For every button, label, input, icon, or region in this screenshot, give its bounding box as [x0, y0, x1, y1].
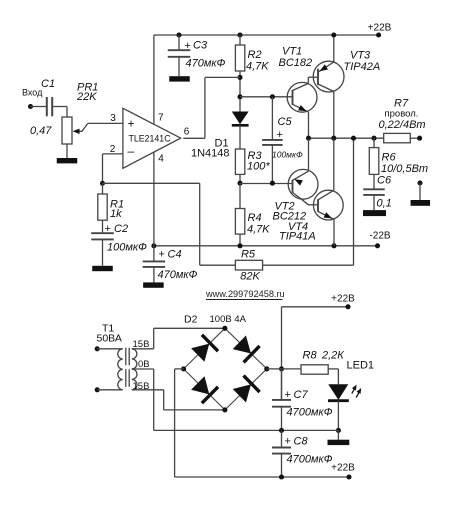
wire LED ground stub — [337, 430, 339, 439]
wire secondary bottom — [132, 390, 225, 410]
svg-text:www.299792458.ru: www.299792458.ru — [205, 289, 285, 299]
label R2 — [248, 49, 262, 61]
ground C6 — [363, 210, 386, 216]
node +22V terminal — [376, 32, 381, 37]
svg-text:VT1: VT1 — [282, 46, 302, 58]
transformer T1 core — [126, 348, 129, 391]
label VT3 type — [344, 61, 381, 73]
resistor R6 — [369, 148, 379, 175]
label R1 value — [110, 208, 122, 220]
svg-text:C2: C2 — [114, 223, 128, 235]
wire R8 left — [282, 368, 302, 370]
wire pin 3 — [88, 122, 123, 124]
label C5 value — [272, 150, 303, 160]
resistor R2 — [235, 45, 244, 71]
label R7 — [394, 98, 409, 110]
svg-text:1N4148: 1N4148 — [191, 148, 230, 160]
node output ground terminal — [417, 180, 422, 185]
label C1 value — [30, 125, 52, 137]
label R6 — [382, 152, 397, 164]
capacitor C1 — [47, 97, 52, 116]
wire op-amp pin7 to +22V — [153, 35, 155, 125]
wire +22V vertical — [281, 307, 283, 400]
wire bridge right — [267, 368, 282, 370]
label R3 — [248, 150, 263, 162]
node R2 top — [237, 32, 242, 37]
wire R2 bottom — [239, 71, 241, 112]
label R4 — [248, 212, 262, 224]
label C4 plus — [159, 249, 165, 261]
node op-amp output junction — [237, 75, 242, 80]
svg-text:4700мкФ: 4700мкФ — [287, 454, 333, 466]
svg-text:BC182: BC182 — [279, 57, 313, 69]
svg-text:+: + — [277, 129, 283, 141]
wire R6 bottom — [373, 174, 375, 189]
wire D1 cathode — [239, 125, 241, 149]
wire bridge edge top-right — [225, 328, 267, 369]
ground C4 — [143, 282, 164, 287]
wire rectifier +22V rail — [282, 306, 349, 308]
wire bottom rail — [175, 476, 349, 478]
label C2 plus — [105, 223, 111, 235]
svg-text:D2: D2 — [184, 314, 198, 326]
capacitor C7 — [272, 369, 291, 431]
node T1 primary top — [95, 346, 100, 351]
wire midpoint rail — [154, 429, 339, 431]
resistor R3 — [235, 149, 244, 174]
node -22V terminal — [375, 243, 380, 248]
svg-text:6: 6 — [184, 127, 190, 138]
svg-text:+: + — [128, 117, 135, 131]
label input — [22, 88, 43, 98]
svg-text:2,2К: 2,2К — [321, 350, 344, 362]
svg-text:+22В: +22В — [368, 23, 392, 34]
label VT1 — [282, 46, 302, 58]
label C4 — [168, 249, 182, 261]
svg-text:C6: C6 — [377, 175, 392, 187]
svg-text:LED1: LED1 — [347, 360, 375, 372]
label C6 — [377, 175, 392, 187]
svg-text:4,7K: 4,7K — [247, 224, 270, 236]
wire R5 to output — [263, 138, 354, 265]
svg-text:100мкФ: 100мкФ — [107, 242, 147, 254]
wire R3 to R4 — [239, 183, 241, 208]
svg-text:7: 7 — [158, 113, 164, 124]
label D1 — [215, 138, 229, 150]
svg-text:C1: C1 — [41, 78, 55, 90]
label PR1 — [77, 82, 98, 94]
resistor R7 — [384, 133, 411, 142]
wire output line — [309, 137, 420, 139]
led LED1 arrows — [352, 385, 361, 398]
label C2 value — [107, 242, 147, 254]
label 15V top — [133, 339, 150, 350]
label R8 — [303, 350, 318, 362]
svg-text:провол.: провол. — [385, 109, 419, 120]
svg-text:3: 3 — [110, 113, 116, 124]
node C3 top — [176, 32, 181, 37]
svg-text:C7: C7 — [294, 389, 309, 401]
label C5 plus — [277, 129, 283, 141]
label C7 — [294, 389, 309, 401]
label R5 value — [240, 271, 260, 283]
label R3 value — [247, 161, 270, 173]
node -22V VT4 — [331, 243, 336, 248]
wire R4 bottom — [239, 234, 241, 246]
label VT4 — [288, 221, 308, 233]
label website — [205, 289, 285, 300]
node input terminal — [28, 104, 33, 109]
wire bridge edge bottom-left — [184, 369, 225, 410]
svg-text:+: + — [285, 389, 291, 401]
label R4 value — [247, 224, 270, 236]
capacitor C6 — [363, 189, 385, 210]
resistor R4 — [235, 209, 244, 235]
svg-text:+: + — [185, 40, 191, 52]
label C2 — [114, 223, 128, 235]
node bridge bottom — [222, 407, 227, 412]
diode D2 top-right — [233, 335, 260, 362]
wire C1 to PR1 — [52, 107, 67, 118]
label op-amp plus input — [128, 117, 135, 131]
svg-text:50ВА: 50ВА — [97, 333, 122, 345]
capacitor C3 — [168, 50, 191, 76]
label R7 value — [379, 119, 426, 131]
svg-text:Вход: Вход — [22, 88, 43, 98]
svg-text:R5: R5 — [241, 249, 256, 261]
svg-text:–: – — [128, 144, 135, 158]
node bottom rail C8 — [279, 474, 284, 479]
label VT4 type — [279, 231, 316, 243]
resistor R1 — [98, 194, 107, 220]
svg-text:R2: R2 — [248, 49, 262, 61]
node C5 bottom — [270, 181, 275, 186]
svg-text:0,47: 0,47 — [30, 125, 52, 137]
label pin 2 — [110, 144, 116, 155]
label C8 plus — [285, 436, 291, 448]
node rectifier +22V terminal — [345, 304, 350, 309]
label LED1 — [347, 360, 375, 372]
svg-text:VT3: VT3 — [350, 50, 371, 62]
label pin 6 — [184, 127, 190, 138]
node output terminal — [417, 136, 422, 141]
wire +22V rail — [154, 34, 379, 36]
wire bridge left to bottom rail — [175, 369, 184, 477]
ground PR1 — [57, 158, 78, 163]
node -22V C4 — [151, 243, 156, 248]
svg-text:C4: C4 — [168, 249, 182, 261]
diode D2 bottom-right — [233, 376, 260, 403]
svg-text:+22В: +22В — [331, 463, 355, 474]
label VT1 type — [279, 57, 313, 69]
resistor R8 — [301, 365, 328, 374]
capacitor C8 — [272, 430, 291, 477]
svg-text:4700мкФ: 4700мкФ — [287, 407, 333, 419]
node LED ground junction — [336, 428, 341, 433]
label C3 plus — [185, 40, 191, 52]
label VT2 — [275, 201, 295, 213]
label rectifier +22V — [331, 294, 355, 305]
wire T1 primary bottom — [97, 389, 123, 391]
label C3 value — [186, 58, 226, 70]
ground C3 — [169, 76, 190, 81]
transformer T1 primary winding — [118, 349, 123, 390]
wire secondary top — [132, 328, 225, 349]
node T1 primary bottom — [95, 387, 100, 392]
svg-text:82K: 82K — [240, 271, 260, 283]
node bottom rail terminal — [346, 474, 351, 479]
wire PR1 wiper — [73, 123, 88, 134]
transistor VT4 — [313, 138, 343, 246]
svg-text:-22В: -22В — [369, 231, 390, 242]
label C7 plus — [285, 389, 291, 401]
wire C3 top — [178, 35, 180, 50]
wire bridge edge bottom-right — [225, 369, 267, 410]
svg-text:470мкФ: 470мкФ — [186, 58, 226, 70]
wire R1 top — [102, 183, 104, 194]
label R7 wirewound — [385, 109, 419, 120]
label C3 — [193, 40, 208, 52]
svg-text:TIP42A: TIP42A — [344, 61, 381, 73]
svg-text:+: + — [285, 436, 291, 448]
potentiometer PR1 — [62, 117, 72, 144]
wire input to C1 — [31, 106, 47, 108]
transistor VT3 — [313, 35, 344, 138]
wire R8 to LED — [328, 369, 338, 384]
label VT3 — [350, 50, 371, 62]
wire secondary 0V — [132, 369, 154, 430]
svg-text:TLE2141C: TLE2141C — [129, 134, 172, 144]
node midpoint C7C8 — [279, 428, 284, 433]
svg-text:100В 4А: 100В 4А — [210, 314, 247, 325]
wire -22V rail — [154, 245, 378, 247]
wire T1 primary top — [97, 348, 123, 350]
label R8 value — [321, 350, 344, 362]
label +22V — [368, 23, 392, 34]
svg-text:10/0,5Вт: 10/0,5Вт — [381, 163, 428, 175]
ground LED — [328, 440, 350, 445]
svg-text:TIP41A: TIP41A — [279, 231, 316, 243]
label C4 value — [158, 269, 198, 281]
svg-text:4,7K: 4,7K — [246, 61, 269, 73]
svg-text:C5: C5 — [278, 116, 293, 128]
svg-text:R4: R4 — [248, 212, 262, 224]
wire R1 bottom — [102, 220, 104, 233]
wire C5 top — [271, 97, 273, 140]
label D2 — [184, 314, 198, 326]
capacitor C5 — [262, 140, 283, 183]
svg-text:0,22/4Вт: 0,22/4Вт — [379, 119, 426, 131]
label D2 rating — [210, 314, 247, 325]
node R6 tap — [371, 136, 376, 141]
node bridge top — [222, 326, 227, 331]
wire op-amp pin4 — [153, 153, 155, 246]
label VT2 type — [273, 211, 307, 223]
svg-text:+22В: +22В — [331, 294, 355, 305]
wire VT2 base — [240, 183, 293, 185]
wire feedback horizontal — [103, 182, 200, 184]
svg-text:C8: C8 — [294, 436, 309, 448]
wire LED cathode — [337, 401, 339, 431]
node feedback junction — [100, 181, 105, 186]
ground C2 — [92, 266, 113, 271]
capacitor C2 — [91, 233, 114, 266]
label pin 7 — [158, 113, 164, 124]
node bridge right — [264, 366, 269, 371]
wire pin 2 — [103, 154, 123, 183]
svg-text:1k: 1k — [110, 208, 122, 220]
svg-text:+: + — [105, 223, 111, 235]
node collectors junction — [331, 136, 336, 141]
label PR1 value — [76, 91, 97, 103]
wire bridge edge top-left — [184, 328, 225, 369]
label R2 value — [246, 61, 269, 73]
node VT3 emitter rail — [331, 32, 336, 37]
svg-text:+: + — [159, 249, 165, 261]
ground output — [411, 200, 431, 206]
diode D2 bottom-left — [191, 376, 218, 403]
node R3-R4 junction — [237, 181, 242, 186]
label bottom +22V — [331, 463, 355, 474]
label C1 — [41, 78, 55, 90]
node feedback tap — [351, 136, 356, 141]
label TLE2141C — [129, 134, 172, 144]
label C5 — [278, 116, 293, 128]
wire R2 top — [239, 35, 241, 45]
wire PR1 bottom — [66, 144, 68, 158]
svg-text:470мкФ: 470мкФ — [158, 269, 198, 281]
label pin 3 — [110, 113, 116, 124]
transistor VT2 — [288, 138, 318, 205]
op-amp U1 TLE2141C — [123, 108, 181, 168]
label C6 value — [377, 197, 392, 209]
wire feedback vertical — [200, 183, 236, 265]
svg-text:C3: C3 — [193, 40, 208, 52]
node C5 top — [270, 94, 275, 99]
svg-text:4: 4 — [158, 154, 164, 165]
node emitters junction — [306, 136, 311, 141]
wire output ground — [419, 183, 421, 200]
label R6 value — [381, 163, 428, 175]
diode D1 — [232, 112, 249, 126]
label C8 value — [287, 454, 333, 466]
led LED1 — [328, 384, 349, 401]
label R1 — [110, 199, 124, 211]
svg-text:R8: R8 — [303, 350, 318, 362]
label T1 — [102, 323, 114, 335]
node D1 anode junction — [237, 94, 242, 99]
svg-text:22K: 22K — [76, 91, 97, 103]
label T1 power — [97, 333, 122, 345]
label 15V bottom — [133, 381, 150, 392]
label C8 — [294, 436, 309, 448]
wire VT1 base — [240, 96, 293, 98]
svg-text:100*: 100* — [247, 161, 270, 173]
resistor R5 — [235, 260, 262, 270]
node bridge right junction — [279, 366, 284, 371]
wire R6 top — [373, 138, 375, 147]
capacitor C4 — [143, 246, 166, 283]
label R5 — [241, 249, 256, 261]
label pin 4 — [158, 154, 164, 165]
wire R3 bottom — [239, 174, 241, 183]
label D1 value — [191, 148, 230, 160]
svg-text:R6: R6 — [382, 152, 397, 164]
label op-amp minus input — [128, 144, 135, 158]
transistor VT1 — [287, 77, 317, 138]
svg-text:0,1: 0,1 — [377, 197, 392, 209]
diode D2 top-left — [191, 335, 218, 362]
label C7 value — [287, 407, 333, 419]
label -22V — [369, 231, 390, 242]
node bridge left — [181, 366, 186, 371]
svg-text:100мкФ: 100мкФ — [272, 150, 303, 160]
node -22V R4 — [237, 243, 242, 248]
wire output to R2 — [183, 77, 240, 138]
transformer T1 secondary winding — [132, 349, 137, 390]
label 0V — [138, 359, 150, 370]
